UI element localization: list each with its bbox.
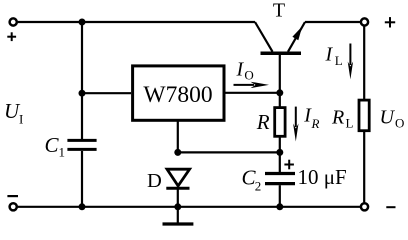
- node junction top-left branch: [79, 19, 86, 26]
- terminal output + (top-right): [361, 18, 368, 25]
- svg-text:L: L: [335, 53, 343, 68]
- transistor T base bar: [261, 51, 302, 55]
- ground: [163, 207, 194, 224]
- wire middle rail (diode to C2): [178, 151, 280, 153]
- diode D: [166, 169, 189, 188]
- plus sign C2 polarity: [284, 160, 294, 170]
- regulator U1 W7800 box: [133, 66, 224, 120]
- svg-text:C: C: [45, 133, 60, 157]
- svg-text:O: O: [395, 116, 404, 131]
- wire regulator output: [225, 92, 280, 94]
- terminal input - (bottom-left): [10, 203, 17, 210]
- transistor T base lead: [279, 55, 281, 93]
- node junction diode top: [174, 149, 181, 156]
- plus sign input: [7, 32, 16, 41]
- svg-text:I: I: [325, 44, 334, 66]
- capacitor C2: [265, 174, 295, 184]
- wire left vertical upper (input branch): [81, 22, 83, 139]
- node junction regulator input: [79, 90, 86, 97]
- svg-text:R: R: [311, 116, 320, 131]
- wire base node to resistor R: [279, 93, 281, 107]
- transistor T collector lead: [255, 22, 273, 52]
- svg-text:D: D: [147, 170, 162, 192]
- svg-text:2: 2: [255, 179, 261, 194]
- svg-text:1: 1: [59, 145, 66, 160]
- node junction C2 bottom rail: [276, 203, 283, 210]
- svg-text:10 μF: 10 μF: [298, 165, 347, 189]
- svg-text:R: R: [256, 110, 270, 134]
- minus sign output: [386, 206, 395, 208]
- svg-text:W7800: W7800: [143, 82, 212, 108]
- svg-text:T: T: [273, 0, 285, 22]
- terminal output - (bottom-right): [361, 203, 368, 210]
- wire right vertical upper: [363, 26, 365, 100]
- node junction regulator output / base: [276, 89, 283, 96]
- svg-text:U: U: [380, 107, 396, 129]
- capacitor C1: [67, 140, 96, 149]
- wire bottom rail: [18, 206, 361, 208]
- wire C2 bottom: [279, 185, 281, 207]
- wire top rail right: [305, 21, 360, 23]
- wire diode cathode to bottom rail: [177, 188, 179, 207]
- svg-text:I: I: [236, 58, 245, 80]
- arrow IL: [348, 44, 353, 80]
- svg-text:R: R: [331, 107, 344, 129]
- node junction C1 bottom rail: [79, 203, 86, 210]
- svg-text:L: L: [346, 116, 354, 131]
- wire C2 top: [279, 152, 281, 172]
- terminal input + (top-left): [10, 18, 17, 25]
- wire top rail left: [18, 21, 255, 23]
- arrow IR: [293, 107, 298, 142]
- wire junction to regulator input: [82, 92, 131, 94]
- arrow IO: [234, 82, 270, 88]
- plus sign output: [385, 17, 395, 27]
- wire R bottom to middle rail: [279, 137, 281, 153]
- wire right vertical lower: [363, 131, 365, 203]
- svg-text:I: I: [19, 112, 23, 127]
- resistor R: [275, 108, 285, 137]
- transistor T emitter lead: [288, 22, 305, 52]
- wire regulator ground pin: [177, 122, 179, 153]
- resistor RL: [359, 100, 369, 131]
- wire left vertical lower: [81, 151, 83, 207]
- node junction R bottom / C2 top: [276, 149, 283, 156]
- minus sign input: [7, 195, 18, 197]
- node junction diode bottom rail: [174, 203, 181, 210]
- transistor T emitter arrow: [292, 26, 302, 40]
- svg-text:O: O: [244, 68, 253, 83]
